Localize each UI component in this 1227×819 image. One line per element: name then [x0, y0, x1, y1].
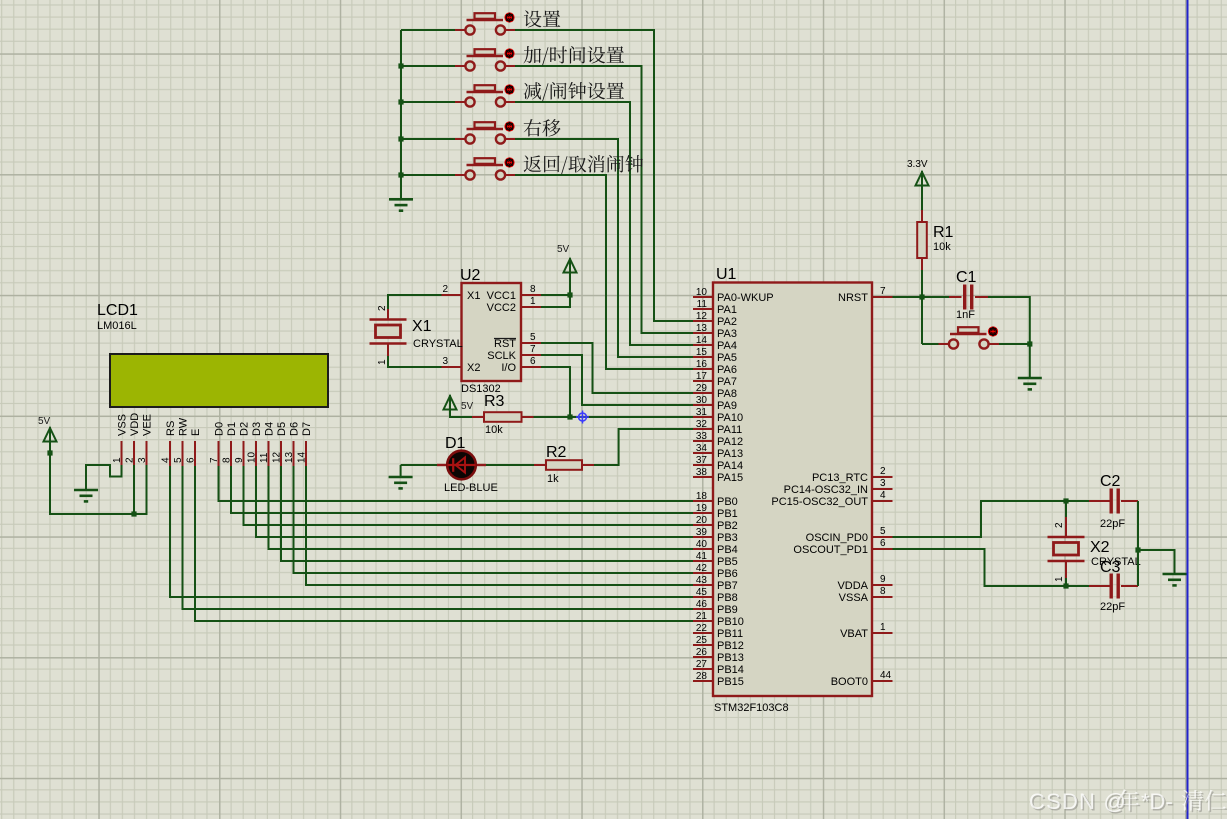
- U1 right pin numbers: [880, 286, 892, 681]
- svg-text:2: 2: [880, 466, 886, 477]
- wire ground to D1: [401, 464, 437, 466]
- capacitor C3 22pF: [1110, 574, 1120, 599]
- junction bus row 4: [398, 136, 403, 141]
- wire to ground (X2 net): [1138, 550, 1175, 573]
- svg-text:X2: X2: [467, 362, 480, 374]
- svg-text:PA10: PA10: [717, 412, 743, 424]
- wire crystal X1 to U2 X2 pin: [388, 356, 442, 367]
- svg-text:VEE: VEE: [142, 414, 154, 436]
- C3 leads: [1089, 585, 1138, 587]
- svg-text:CSDN @: CSDN @: [1029, 789, 1127, 814]
- junction bus row 2: [398, 63, 403, 68]
- svg-text:D5: D5: [276, 422, 288, 436]
- wire U2 X1 pin to crystal X1: [388, 295, 442, 309]
- svg-text:PA3: PA3: [717, 328, 737, 340]
- crystal X2: [1048, 537, 1085, 561]
- R1 leads: [921, 210, 923, 270]
- svg-text:PA14: PA14: [717, 460, 743, 472]
- svg-text:5V: 5V: [461, 401, 474, 412]
- wire bus to button 3: [401, 101, 455, 103]
- wire NRST to C1: [893, 296, 950, 298]
- label text 右移: [524, 119, 561, 137]
- svg-text:32: 32: [696, 419, 708, 430]
- push button (返回/取消闹钟): [455, 157, 516, 179]
- svg-text:NRST: NRST: [838, 292, 868, 304]
- svg-text:VSS: VSS: [117, 414, 129, 436]
- wire C2/C3 right rail: [1137, 501, 1139, 586]
- svg-text:PB3: PB3: [717, 532, 738, 544]
- svg-text:16: 16: [696, 359, 708, 370]
- svg-text:PA6: PA6: [717, 364, 737, 376]
- svg-text:PB9: PB9: [717, 604, 738, 616]
- svg-text:40: 40: [696, 539, 708, 550]
- svg-text:X2: X2: [1090, 539, 1110, 556]
- capacitor C1 1nF: [963, 285, 973, 310]
- svg-text:PB5: PB5: [717, 556, 738, 568]
- svg-text:12: 12: [696, 311, 708, 322]
- svg-text:VSSA: VSSA: [839, 592, 869, 604]
- ground (LCD VSS): [74, 490, 98, 501]
- svg-text:33: 33: [696, 431, 708, 442]
- junction reset/ground rail: [1027, 341, 1032, 346]
- svg-text:X1: X1: [467, 290, 480, 302]
- svg-text:9: 9: [880, 574, 886, 585]
- svg-text:SCLK: SCLK: [487, 350, 516, 362]
- svg-text:PA4: PA4: [717, 340, 737, 352]
- capacitor C2 22pF: [1110, 489, 1120, 514]
- svg-text:D4: D4: [264, 422, 276, 436]
- junction right rail / ground branch: [1135, 547, 1140, 552]
- push button (右移): [455, 121, 516, 143]
- wire LCD D2 to U1: [244, 466, 694, 525]
- svg-text:PA9: PA9: [717, 400, 737, 412]
- wire LCD D3 to U1: [256, 466, 693, 537]
- wire bus to button 5: [401, 174, 455, 176]
- wire 5V to VCC2: [541, 272, 570, 307]
- R2 leads: [534, 464, 594, 466]
- svg-text:PC14-OSC32_IN: PC14-OSC32_IN: [784, 484, 868, 496]
- wire OSCOUT_PD1 to C3/X2 bottom rail: [893, 549, 1090, 586]
- svg-text:C3: C3: [1100, 559, 1121, 576]
- svg-text:I/O: I/O: [501, 362, 516, 374]
- svg-text:PB6: PB6: [717, 568, 738, 580]
- svg-text:PB8: PB8: [717, 592, 738, 604]
- svg-text:3: 3: [442, 356, 448, 367]
- junction X2 pin2 / top rail: [1063, 498, 1068, 503]
- wire button 1 to U1 PA2: [515, 30, 693, 321]
- R3 leads: [472, 416, 534, 418]
- U1 left pin numbers: [696, 287, 708, 682]
- svg-text:30: 30: [696, 395, 708, 406]
- svg-text:14: 14: [696, 335, 708, 346]
- power 5V (R3): [444, 395, 474, 412]
- svg-text:R3: R3: [484, 393, 505, 410]
- svg-text:PC15-OSC32_OUT: PC15-OSC32_OUT: [771, 496, 868, 508]
- svg-text:19: 19: [696, 503, 708, 514]
- svg-text:4: 4: [880, 490, 886, 501]
- svg-text:LED-BLUE: LED-BLUE: [444, 482, 498, 494]
- svg-text:D7: D7: [301, 422, 313, 436]
- power 5V (LCD): [38, 416, 57, 442]
- wire LCD VEE/5V bus: [50, 442, 147, 514]
- R2 labels: [546, 444, 567, 485]
- wire bus to button 4: [401, 138, 455, 140]
- svg-text:1: 1: [377, 359, 388, 365]
- svg-text:D0: D0: [214, 422, 226, 436]
- svg-text:C1: C1: [956, 269, 977, 286]
- origin marker (blue): [576, 411, 589, 424]
- svg-text:LM016L: LM016L: [97, 320, 137, 332]
- wire bus to button 1: [401, 29, 455, 31]
- wire button 2 to U1 PA3: [515, 66, 693, 333]
- svg-text:PA7: PA7: [717, 376, 737, 388]
- svg-text:42: 42: [696, 563, 708, 574]
- junction bus row 3: [398, 99, 403, 104]
- svg-text:RW: RW: [178, 417, 190, 436]
- junction NRST/R1: [919, 294, 924, 299]
- svg-text:7: 7: [530, 344, 536, 355]
- svg-text:PB0: PB0: [717, 496, 738, 508]
- svg-text:PA5: PA5: [717, 352, 737, 364]
- svg-text:10k: 10k: [485, 424, 503, 436]
- svg-text:LCD1: LCD1: [97, 302, 138, 319]
- wire LCD D4 to U1: [269, 466, 694, 549]
- wire X2 pin2: [1065, 501, 1067, 517]
- ground (button bank): [389, 199, 413, 210]
- wire R2 to U1 PA11: [594, 429, 693, 465]
- IC U1 STM32F103C8 body: [713, 266, 872, 714]
- svg-text:10: 10: [696, 287, 708, 298]
- wire button 5 to U1 PA6: [515, 175, 693, 369]
- svg-text:VDDA: VDDA: [837, 580, 868, 592]
- svg-text:22pF: 22pF: [1100, 601, 1125, 613]
- svg-text:5: 5: [880, 526, 886, 537]
- wire reset button to ground rail: [999, 343, 1030, 345]
- wire U2 I/O down to R3 net: [541, 367, 570, 417]
- svg-text:PA12: PA12: [717, 436, 743, 448]
- resistor R2: [546, 460, 582, 470]
- svg-text:PB11: PB11: [717, 628, 743, 640]
- svg-text:CRYSTAL: CRYSTAL: [413, 338, 463, 350]
- wire LCD RS to U1: [170, 466, 693, 597]
- svg-text:X1: X1: [412, 318, 432, 335]
- wire LCD VSS to ground: [86, 465, 122, 489]
- wire OSCIN_PD0 to C2/X2 top rail: [893, 501, 1090, 537]
- wire U2 RST to U1 PA8: [541, 343, 693, 393]
- label text 返回/取消闹钟: [524, 155, 643, 174]
- svg-text:5V: 5V: [557, 244, 570, 255]
- LCD LCD1 LM016L: [97, 302, 328, 407]
- svg-text:RS: RS: [165, 421, 177, 436]
- U1 right pin stubs: [872, 297, 893, 681]
- IC U2 DS1302: [442, 267, 536, 395]
- svg-text:41: 41: [696, 551, 708, 562]
- label text 加/时间设置: [524, 46, 625, 65]
- svg-text:8: 8: [880, 586, 886, 597]
- svg-text:PA0-WKUP: PA0-WKUP: [717, 292, 774, 304]
- C1 leads: [949, 296, 988, 298]
- svg-text:6: 6: [880, 538, 886, 549]
- svg-text:25: 25: [696, 635, 708, 646]
- LED D1 LED-BLUE: [437, 435, 498, 494]
- C3 labels: [1100, 559, 1125, 613]
- svg-text:5: 5: [530, 332, 536, 343]
- svg-text:D2: D2: [239, 422, 251, 436]
- ground (C1/reset): [1018, 378, 1042, 389]
- svg-text:R2: R2: [546, 444, 567, 461]
- U2 pin stubs: [442, 295, 542, 367]
- label text 设置: [524, 10, 561, 27]
- wire C1 to ground rail: [988, 297, 1030, 377]
- wire 3.3V to R1: [921, 186, 923, 211]
- svg-text:15: 15: [696, 347, 708, 358]
- svg-text:1k: 1k: [547, 473, 559, 485]
- R3 labels: [484, 393, 505, 436]
- push button (reset): [939, 326, 1000, 348]
- wire button 4 to U1 PA5: [515, 139, 693, 357]
- LCD1 pin numbers: [112, 451, 308, 463]
- svg-text:R1: R1: [933, 224, 954, 241]
- svg-text:E: E: [190, 429, 202, 436]
- svg-text:U1: U1: [716, 266, 737, 283]
- U1 left pin stubs: [693, 297, 713, 681]
- ground (X2 net): [1163, 574, 1187, 585]
- svg-text:1: 1: [1054, 576, 1065, 582]
- svg-text:PA1: PA1: [717, 304, 737, 316]
- sheet border (blue): [1187, 0, 1189, 819]
- wire LCD D1 to U1: [231, 466, 693, 513]
- svg-text:PA13: PA13: [717, 448, 743, 460]
- wire LCD RW to U1: [183, 466, 694, 609]
- wire R3 to U1 PA10: [534, 416, 694, 418]
- svg-text:PB14: PB14: [717, 664, 744, 676]
- svg-text:D1: D1: [445, 435, 466, 452]
- svg-text:VCC2: VCC2: [487, 302, 516, 314]
- wire D1 to R2: [486, 464, 534, 466]
- svg-text:17: 17: [696, 371, 708, 382]
- power 5V (U2 VCC): [557, 244, 577, 273]
- svg-text:6: 6: [530, 356, 536, 367]
- push button (加/时间设置): [455, 48, 516, 70]
- wire R1 node to reset button: [922, 343, 939, 345]
- svg-text:38: 38: [696, 467, 708, 478]
- svg-text:29: 29: [696, 383, 708, 394]
- wire 5V to R3: [450, 409, 472, 417]
- svg-text:PB15: PB15: [717, 676, 744, 688]
- svg-text:18: 18: [696, 491, 708, 502]
- junction I/O / R3 / PA10: [567, 414, 572, 419]
- svg-text:VDD: VDD: [129, 413, 141, 436]
- wire U2 SCLK to U1 PA9: [541, 355, 693, 405]
- svg-text:2: 2: [377, 305, 388, 311]
- wire LCD D0 to U1: [219, 466, 694, 501]
- X2 pin leads: [1065, 517, 1067, 578]
- svg-text:PB13: PB13: [717, 652, 744, 664]
- svg-text:RST: RST: [494, 338, 516, 350]
- wire R1 to NRST node / reset button: [921, 270, 923, 344]
- X1 labels: [377, 305, 463, 365]
- power 3.3V: [907, 159, 929, 186]
- svg-text:8: 8: [530, 284, 536, 295]
- svg-text:45: 45: [696, 587, 708, 598]
- svg-text:PA8: PA8: [717, 388, 737, 400]
- svg-text:VCC1: VCC1: [487, 290, 516, 302]
- svg-text:31: 31: [696, 407, 708, 418]
- wire button ground bus: [400, 30, 402, 199]
- ground (D1): [389, 477, 413, 488]
- svg-text:BOOT0: BOOT0: [831, 676, 868, 688]
- svg-text:PB1: PB1: [717, 508, 738, 520]
- svg-text:PB4: PB4: [717, 544, 738, 556]
- svg-text:2: 2: [1054, 522, 1065, 528]
- svg-text:PA11: PA11: [717, 424, 742, 436]
- crystal X1: [370, 320, 407, 344]
- wire button 3 to U1 PA4: [515, 102, 693, 345]
- wire X2 pin1: [1065, 578, 1067, 586]
- svg-text:37: 37: [696, 455, 708, 466]
- wire D1 ground stub: [400, 465, 402, 476]
- svg-text:U2: U2: [460, 267, 481, 284]
- svg-text:11: 11: [697, 299, 708, 310]
- junction X2 pin1 / bottom rail: [1063, 583, 1068, 588]
- crystal X1 pin leads: [387, 309, 389, 356]
- svg-text:PB2: PB2: [717, 520, 738, 532]
- svg-text:*D-: *D-: [1141, 789, 1173, 814]
- svg-text:28: 28: [696, 671, 708, 682]
- svg-text:PB10: PB10: [717, 616, 744, 628]
- svg-text:3.3V: 3.3V: [907, 159, 928, 170]
- svg-text:PB7: PB7: [717, 580, 738, 592]
- svg-text:20: 20: [696, 515, 708, 526]
- R1 labels: [933, 224, 954, 253]
- label text 减/闹钟设置: [524, 82, 624, 101]
- svg-text:2: 2: [442, 284, 448, 295]
- wire LCD D7 to U1: [306, 466, 693, 585]
- svg-text:22pF: 22pF: [1100, 518, 1125, 530]
- C2 leads: [1089, 500, 1138, 502]
- resistor R3: [484, 412, 522, 422]
- svg-text:PC13_RTC: PC13_RTC: [812, 472, 868, 484]
- svg-text:OSCOUT_PD1: OSCOUT_PD1: [793, 544, 868, 556]
- X2 labels: [1054, 522, 1141, 582]
- junction dot 5V stem: [47, 450, 52, 455]
- svg-text:5V: 5V: [38, 416, 51, 427]
- svg-text:D6: D6: [289, 422, 301, 436]
- push button (减/闹钟设置): [455, 84, 516, 106]
- LCD1 pin labels: [117, 413, 314, 436]
- wire VCC1: [541, 294, 570, 296]
- svg-text:43: 43: [696, 575, 708, 586]
- svg-text:46: 46: [696, 599, 708, 610]
- junction VDD/5V bus: [131, 511, 136, 516]
- svg-text:1: 1: [880, 622, 886, 633]
- svg-text:7: 7: [880, 286, 886, 297]
- svg-text:39: 39: [696, 527, 708, 538]
- U1 right pin names: [771, 292, 868, 688]
- wire LCD E to U1: [195, 466, 693, 621]
- svg-text:27: 27: [696, 659, 708, 670]
- svg-text:21: 21: [696, 611, 708, 622]
- watermark CSDN @年*D-清仁: [1029, 789, 1227, 816]
- svg-text:1nF: 1nF: [956, 309, 975, 321]
- LCD1 pin stubs: [122, 441, 307, 466]
- push button (设置): [455, 12, 516, 34]
- junction bus row 5: [398, 172, 403, 177]
- svg-text:26: 26: [696, 647, 708, 658]
- svg-text:13: 13: [696, 323, 708, 334]
- wire bus to button 2: [401, 65, 455, 67]
- C1 labels: [956, 269, 977, 321]
- wire LCD D5 to U1: [281, 466, 693, 561]
- svg-text:44: 44: [880, 670, 892, 681]
- C2 labels: [1100, 473, 1125, 530]
- resistor R1: [917, 222, 927, 258]
- svg-text:D1: D1: [226, 422, 238, 436]
- wire LCD VDD to 5V bus: [133, 465, 135, 514]
- svg-text:22: 22: [696, 623, 708, 634]
- svg-text:1: 1: [530, 296, 536, 307]
- svg-text:D3: D3: [251, 422, 263, 436]
- svg-text:VBAT: VBAT: [840, 628, 868, 640]
- svg-text:PA2: PA2: [717, 316, 737, 328]
- svg-text:PB12: PB12: [717, 640, 744, 652]
- svg-text:C2: C2: [1100, 473, 1121, 490]
- wire LCD D6 to U1: [294, 466, 694, 573]
- junction VCC node: [567, 292, 572, 297]
- svg-text:34: 34: [696, 443, 708, 454]
- U1 left pin names: [717, 292, 774, 688]
- svg-text:PA15: PA15: [717, 472, 743, 484]
- svg-text:STM32F103C8: STM32F103C8: [714, 702, 789, 714]
- svg-text:3: 3: [880, 478, 886, 489]
- svg-text:OSCIN_PD0: OSCIN_PD0: [806, 532, 868, 544]
- svg-text:10k: 10k: [933, 241, 951, 253]
